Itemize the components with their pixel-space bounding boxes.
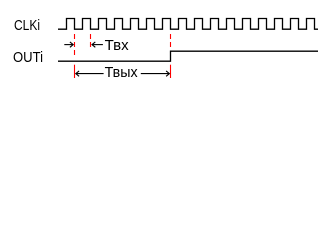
wire CLKi clock waveform: [58, 19, 318, 30]
node marker red dashed line 2 (second clock falling edge): [90, 34, 92, 47]
wire OUTi output waveform: [58, 51, 318, 61]
wire Tvyx measure arrow pointing right: [141, 71, 170, 76]
node marker red dashed line 3 (OUTi rising edge): [170, 34, 172, 47]
node measure terminator red bar right: [170, 65, 172, 78]
wire Tvyx measure arrow pointing left: [76, 71, 104, 76]
node measure terminator red bar left: [74, 65, 76, 78]
svg-text:Твых: Твых: [105, 65, 139, 81]
svg-text:OUTi: OUTi: [13, 50, 43, 66]
svg-text:Твх: Твх: [105, 38, 130, 54]
node marker red dashed line 1 (first clock falling edge): [74, 34, 76, 55]
wire Tvx measure arrow right: [64, 42, 73, 47]
wire Tvx measure arrow left: [92, 42, 103, 47]
svg-text:CLKi: CLKi: [14, 18, 40, 34]
